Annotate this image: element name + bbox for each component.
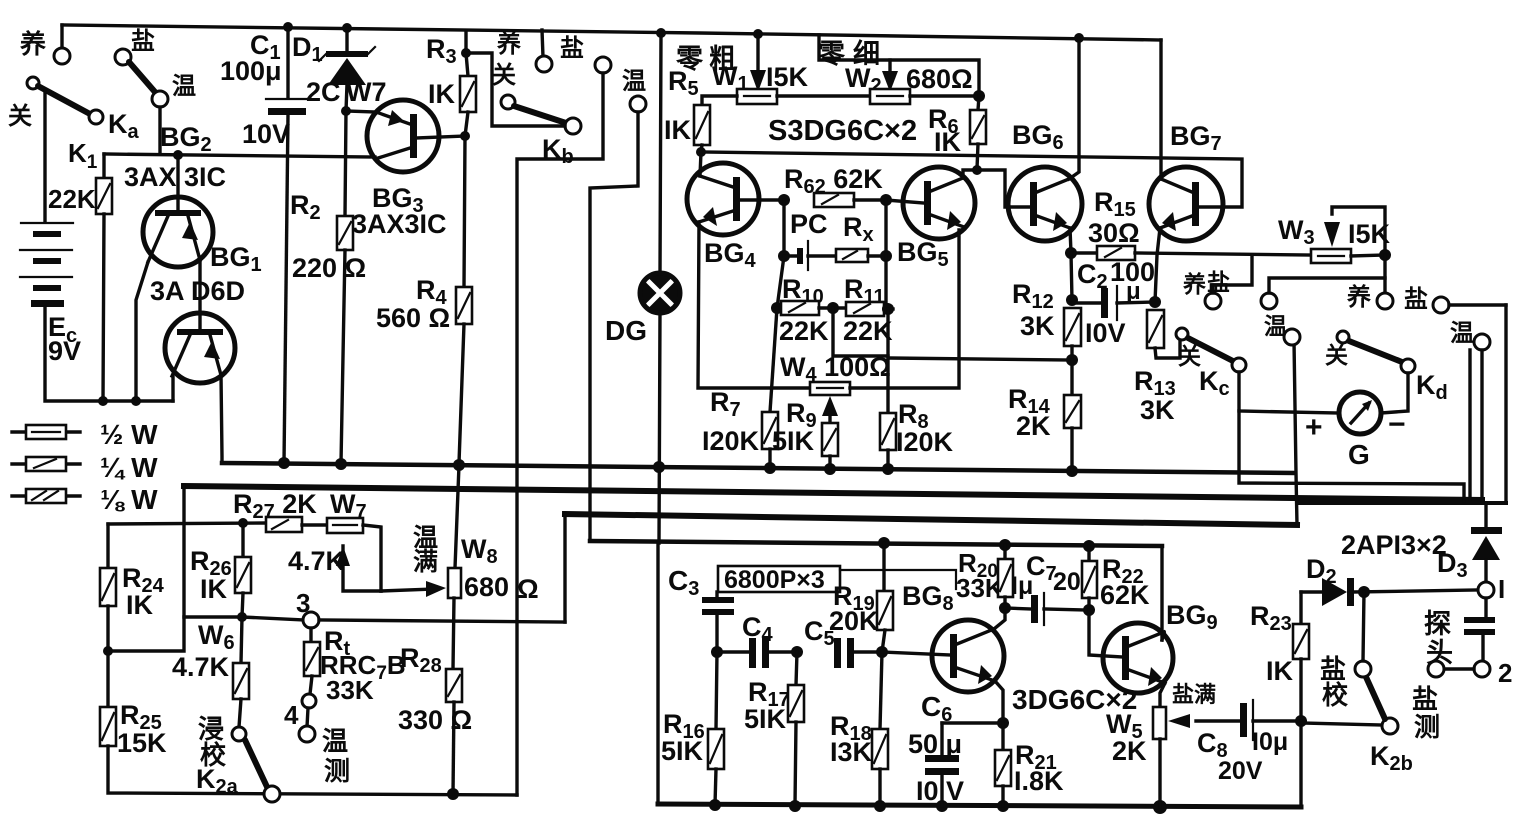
node 盐测 contact circle — [1428, 661, 1444, 677]
wire R27 row — [108, 523, 266, 524]
svg-text:满: 满 — [413, 548, 438, 576]
wire 2 to test contact — [1444, 667, 1474, 670]
svg-text:22K: 22K — [843, 316, 893, 346]
wire BG7 emitter down — [1155, 228, 1160, 302]
svg-text:IK: IK — [428, 79, 456, 109]
resistor R9 — [822, 423, 838, 456]
resistor R12 — [1064, 308, 1081, 346]
wire W1 left to R5 — [702, 96, 737, 105]
wire R3 to Kb pivot — [466, 53, 565, 126]
node 温Kd circle — [1474, 334, 1490, 350]
svg-text:I.8K: I.8K — [1014, 766, 1064, 796]
transistor BG8 — [932, 620, 1004, 692]
switch lever Kb — [514, 106, 566, 123]
node C3/C4/R16 — [711, 646, 723, 658]
svg-text:盐: 盐 — [1404, 286, 1428, 313]
label box 6800P×3 — [718, 566, 840, 592]
wire BG4 base column — [782, 200, 785, 256]
capacitor C4 — [717, 650, 749, 653]
node upper pivot circle — [152, 91, 168, 107]
node W3 right — [1379, 249, 1391, 261]
potentiometer W7 — [327, 518, 363, 533]
svg-text:4.7K: 4.7K — [172, 652, 230, 682]
svg-text:温: 温 — [172, 73, 196, 100]
svg-text:I5K: I5K — [766, 62, 809, 92]
node 盐Kd circle — [1433, 297, 1449, 313]
wire cross link to R12 column — [888, 358, 1072, 360]
node BG3 base / R4 top — [460, 131, 470, 141]
thermistor Rt — [309, 628, 312, 642]
resistor R13 — [1147, 310, 1164, 348]
svg-text:养: 养 — [496, 30, 521, 58]
svg-text:W7: W7 — [346, 77, 387, 107]
svg-text:I0V: I0V — [1085, 318, 1126, 348]
resistor R26 — [241, 523, 244, 557]
resistor 22K body — [102, 154, 105, 178]
node W6 top — [237, 612, 247, 622]
bus B — [184, 486, 1482, 500]
legend resistor 1/2W — [12, 430, 80, 433]
wire BG9 base link — [1089, 610, 1122, 657]
svg-text:50 μ: 50 μ — [908, 729, 962, 759]
wire D2 left lead — [1301, 590, 1322, 593]
svg-text:I0 V: I0 V — [916, 776, 964, 806]
wire K2b contact riser — [1363, 592, 1364, 661]
wire junction to bottom rail — [1299, 721, 1302, 807]
node 养Kc circle — [1205, 293, 1221, 309]
wire BG7 collector riser — [1159, 40, 1162, 179]
switch lever Kd — [1349, 341, 1402, 362]
node C1 top — [283, 22, 293, 32]
svg-text:3K: 3K — [1020, 311, 1055, 341]
node BG4 base — [778, 194, 790, 206]
wire 盐Kd to right drop — [1449, 303, 1506, 306]
switch lever Kc — [1188, 338, 1233, 361]
svg-text:IK: IK — [664, 115, 692, 145]
resistor R5 — [694, 105, 710, 145]
node D1/BG3 — [341, 106, 351, 116]
legend resistor 1/4W — [12, 462, 80, 465]
svg-text:5IK: 5IK — [744, 704, 787, 734]
wire BG6 emitter to R15 node — [1070, 228, 1071, 253]
capacitor C1 — [286, 27, 289, 97]
svg-text:测: 测 — [324, 756, 350, 786]
node bottom rail dots — [709, 799, 721, 811]
wire BG9 collector to rail — [1162, 632, 1164, 640]
svg-text:15K: 15K — [117, 728, 167, 758]
wire BG5 base lead — [886, 200, 924, 203]
svg-text:2API3×2: 2API3×2 — [1341, 530, 1447, 560]
wire BG5 base column — [884, 200, 887, 308]
wire 盐Kc riser — [1269, 278, 1385, 293]
svg-text:探: 探 — [1424, 609, 1451, 639]
node 盐Kc circle — [1261, 293, 1277, 309]
potentiometer W2 wiper — [888, 60, 891, 74]
wire W4 right to BG5 emitter column — [850, 230, 959, 388]
resistor R28 — [446, 669, 462, 702]
node 关 contact circle — [27, 77, 39, 89]
svg-text:2C: 2C — [306, 77, 341, 107]
node R20 bottom / C7 left — [999, 602, 1011, 614]
svg-text:I3K: I3K — [830, 737, 873, 767]
node R5 bottom — [696, 147, 706, 157]
wire BG9 emitter to W5 — [1160, 683, 1165, 707]
wire W1 right to W2 left — [777, 94, 870, 97]
node R15 left — [1065, 247, 1077, 259]
svg-text:S3DG6C×2: S3DG6C×2 — [768, 115, 917, 147]
resistor R10 — [781, 301, 819, 315]
node 1 terminal — [1478, 582, 1494, 598]
wire W2 right to node — [910, 94, 979, 97]
svg-text:680Ω: 680Ω — [906, 64, 973, 94]
resistor R6 — [978, 96, 979, 110]
wire 温Kd drop to bus B — [1480, 350, 1483, 500]
wire battery negative rail — [45, 307, 173, 401]
svg-text:盐: 盐 — [1207, 269, 1230, 295]
transistor BG2 — [143, 197, 213, 267]
wire C6 link — [942, 721, 1003, 724]
node C4/C5/R17 — [791, 646, 803, 658]
resistor R20 — [1003, 545, 1006, 559]
node K2b contact circle — [1355, 661, 1371, 677]
node R12/R14 — [1066, 354, 1078, 366]
node W2/R6 — [973, 90, 985, 102]
node 养 contact circle — [54, 48, 70, 64]
node R22k bottom — [98, 396, 108, 406]
lamp DG — [640, 273, 680, 313]
node Kb pivot — [565, 118, 581, 134]
wire BG4 base lead — [740, 198, 784, 201]
svg-text:关: 关 — [492, 62, 516, 89]
capacitor C3 — [702, 597, 734, 603]
wire BG1 collector riser — [171, 377, 174, 401]
svg-text:20K: 20K — [829, 606, 879, 636]
svg-text:I0μ: I0μ — [1252, 728, 1288, 756]
node rail dots — [878, 537, 890, 549]
wire bus C left drop — [563, 514, 566, 622]
svg-text:关: 关 — [1178, 343, 1201, 369]
svg-text:3K: 3K — [1140, 395, 1175, 425]
svg-text:盐: 盐 — [560, 35, 584, 62]
node R6 bottom — [972, 165, 982, 175]
node 关Kd circle — [1337, 331, 1349, 343]
svg-text:6800P×3: 6800P×3 — [724, 566, 825, 594]
resistor R19 — [882, 543, 885, 591]
svg-text:温: 温 — [1450, 320, 1474, 347]
transistor BG1 — [165, 313, 235, 383]
wire BG4 collector to R5 node — [700, 152, 701, 176]
bus C — [565, 514, 1297, 525]
resistor R18 — [880, 652, 882, 729]
bus A — [222, 463, 1294, 473]
wire BG2 collector down — [136, 262, 148, 401]
wire 养Kc to R15/W3 line — [1213, 255, 1252, 293]
node 养Kd circle — [1377, 293, 1393, 309]
svg-text:5IK: 5IK — [772, 426, 815, 456]
wire W7 right drop — [363, 525, 381, 591]
wire 养Kb stub — [542, 30, 543, 57]
svg-text:PC: PC — [790, 209, 828, 239]
wire W5 wiper arrow from C8 — [1196, 719, 1240, 722]
switch lever K2a — [245, 740, 268, 789]
resistor R21 — [1001, 723, 1004, 750]
resistor R3 — [466, 53, 468, 76]
svg-text:温: 温 — [322, 726, 348, 756]
node C5/R18/R19/BG8 base — [876, 646, 888, 658]
node 温Kb circle — [630, 96, 646, 112]
node Rx right — [880, 250, 892, 262]
svg-text:IK: IK — [126, 590, 154, 620]
svg-text:IK: IK — [200, 574, 228, 604]
svg-text:½ W: ½ W — [100, 419, 158, 450]
capacitor C6 electrolytic — [925, 755, 959, 762]
svg-text:I: I — [1498, 574, 1505, 604]
svg-text:G: G — [1348, 439, 1370, 470]
node R28 bottom — [447, 788, 459, 800]
node K2a pivot — [264, 786, 280, 802]
svg-text:盐: 盐 — [131, 28, 155, 55]
photocell PC element — [784, 254, 799, 257]
node BG2 collector bottom — [131, 396, 141, 406]
potentiometer W3 — [1311, 249, 1351, 263]
svg-text:养: 养 — [1346, 283, 1371, 311]
wire block rail right drop to BG9 — [1160, 546, 1163, 640]
resistor R2 — [345, 111, 346, 216]
node R26 top — [238, 518, 248, 528]
resistor R62 — [814, 193, 854, 207]
resistor R11 — [846, 302, 884, 316]
svg-text:校: 校 — [1322, 680, 1349, 710]
wire Kc pivot to G — [1239, 372, 1339, 413]
wire BG5 collector step to BG6 base — [963, 170, 1030, 207]
resistor R8 — [880, 413, 896, 450]
wire block left edge — [656, 543, 659, 804]
svg-text:22K: 22K — [48, 184, 96, 214]
node 温Kc circle — [1284, 329, 1300, 345]
node Kd pivot — [1401, 359, 1415, 373]
node 2 terminal — [1474, 661, 1490, 677]
capacitor C5 — [834, 638, 841, 668]
node 关Kb circle — [501, 95, 515, 109]
capacitor C8 — [1240, 703, 1247, 737]
switch lever Ka — [38, 86, 90, 114]
meter G — [1339, 392, 1381, 434]
svg-text:4.7K: 4.7K — [288, 546, 346, 576]
potentiometer W8 — [455, 465, 459, 568]
svg-text:560 Ω: 560 Ω — [376, 303, 450, 333]
wire label box lead — [840, 570, 956, 589]
capacitor probe — [1484, 598, 1487, 617]
capacitor C2 — [1072, 301, 1101, 304]
svg-text:62K: 62K — [1100, 580, 1150, 610]
potentiometer W2 — [870, 89, 910, 104]
svg-text:33K: 33K — [326, 675, 374, 705]
diode D3 zener — [1484, 503, 1487, 530]
wire battery top lead — [43, 90, 46, 221]
wire D1 node to BG3 — [346, 111, 375, 112]
node R10/R11 mid — [827, 302, 839, 314]
svg-text:22K: 22K — [779, 316, 829, 346]
node R22 bottom / BG9 base — [1083, 604, 1095, 616]
wire W4 wiper from R9 — [828, 408, 831, 423]
bus C2 right segment to D3 top — [1297, 501, 1506, 505]
potentiometer W5 — [1153, 707, 1166, 739]
transistor BG5 — [903, 167, 975, 239]
svg-text:关: 关 — [8, 103, 32, 130]
transistor BG4 — [687, 163, 759, 235]
wire feedback line to BG7 base — [701, 152, 1242, 207]
wire BG1 emitter to bus A — [221, 375, 222, 463]
svg-text:9V: 9V — [48, 336, 81, 366]
svg-text:10V: 10V — [242, 119, 290, 149]
node 盐Kb circle — [595, 57, 611, 73]
wire R12 column top — [1071, 253, 1072, 300]
svg-text:2: 2 — [1498, 658, 1512, 688]
node BG2 base — [173, 150, 183, 160]
node K2b pivot — [1382, 718, 1398, 734]
svg-text:220 Ω: 220 Ω — [292, 253, 366, 283]
svg-text:养: 养 — [19, 29, 46, 59]
svg-text:330 Ω: 330 Ω — [398, 705, 472, 735]
wire left column to R10 — [777, 256, 784, 308]
resistor R4 — [464, 136, 465, 287]
capacitor C7 — [1005, 608, 1031, 609]
transistor BG9 — [1103, 623, 1173, 693]
battery Ec plates — [21, 222, 73, 224]
svg-text:I20K: I20K — [702, 426, 760, 456]
node R13 top — [1149, 296, 1161, 308]
switch lever K2b — [1366, 677, 1385, 719]
svg-text:680: 680 — [464, 572, 509, 602]
potentiometer W1 wiper feed — [756, 34, 759, 72]
wire BG8 collector to C7 node — [994, 608, 1005, 629]
svg-text:Ω: Ω — [517, 574, 539, 604]
node BG6 collector feed — [1074, 33, 1084, 43]
wire BG2 emitter to BG1 base — [198, 260, 201, 331]
wire BG8 base lead — [882, 652, 950, 655]
wire W7 wiper — [343, 546, 381, 591]
wire mid node L to right column — [833, 308, 888, 356]
wire base rail K1 — [104, 154, 375, 157]
wire G return to bus — [1239, 411, 1464, 501]
wire upper pivot down to base rail — [158, 107, 161, 153]
wire W3 node to Kd rail — [1383, 255, 1386, 293]
resistor R16 — [716, 652, 717, 729]
svg-text:2K: 2K — [1112, 736, 1147, 766]
resistor R25 — [100, 707, 116, 746]
wire 3-row to right — [319, 620, 565, 622]
svg-text:养: 养 — [1182, 271, 1206, 297]
svg-text:盐满: 盐满 — [1172, 682, 1216, 707]
node emitter junction — [997, 717, 1009, 729]
svg-text:20V: 20V — [1218, 757, 1263, 785]
switch lever Ka-upper — [129, 62, 155, 92]
svg-text:¼ W: ¼ W — [100, 452, 158, 483]
legend resistor 1/8W — [12, 494, 80, 497]
wire right column down — [886, 309, 889, 413]
svg-text:温: 温 — [622, 68, 646, 95]
node R10 left — [771, 302, 783, 314]
wire top supply rail — [62, 25, 1161, 40]
node PC left — [778, 250, 790, 262]
transistor BG7 — [1149, 167, 1223, 241]
resistor Rx — [836, 249, 868, 262]
wire BG3 base lead — [417, 136, 465, 138]
node R11 right — [882, 303, 894, 315]
transistor BG6 — [1008, 167, 1082, 241]
node BG5 base — [880, 194, 892, 206]
node bus A dots — [278, 457, 290, 469]
wire 温Kb down to bus rail D — [590, 112, 638, 541]
svg-text:测: 测 — [1414, 712, 1440, 742]
wire Kd pivot to G right — [1381, 373, 1408, 413]
resistor R15 — [1071, 251, 1097, 254]
node R12 top — [1066, 294, 1078, 306]
wire 养 contact stub — [60, 25, 63, 48]
wire DG column — [660, 33, 661, 274]
wire bus B left drop — [108, 486, 184, 651]
wire node row to 3 terminal — [184, 617, 304, 620]
resistor R24 — [106, 524, 109, 568]
node DG top — [656, 28, 666, 38]
node 养Kb circle — [536, 56, 552, 72]
transistor BG3 — [367, 100, 439, 172]
svg-text:3AX3IC: 3AX3IC — [352, 209, 447, 239]
node D2 right / K2b branch — [1358, 586, 1370, 598]
wire BG4 emitter column — [698, 222, 810, 388]
svg-text:IK: IK — [1266, 656, 1294, 686]
svg-text:−: − — [1388, 408, 1406, 441]
node Kc pivot — [1232, 358, 1246, 372]
potentiometer W3 wiper tie — [1332, 207, 1385, 250]
bus rail bottom block — [590, 541, 1162, 546]
svg-text:5IK: 5IK — [661, 736, 704, 766]
svg-text:Iμ: Iμ — [1011, 572, 1033, 600]
svg-text:2K: 2K — [1016, 411, 1051, 441]
wire block bottom rail — [658, 804, 1301, 807]
svg-text:DG: DG — [605, 315, 647, 346]
resistor R23 — [1299, 592, 1302, 624]
node W6 bottom circle — [232, 727, 246, 741]
svg-text:IK: IK — [934, 127, 962, 157]
wire R3 top — [464, 31, 467, 53]
node R24 bottom — [103, 646, 113, 656]
svg-text:盐: 盐 — [1412, 684, 1438, 714]
node D1 top — [342, 23, 352, 33]
svg-text:⅛ W: ⅛ W — [100, 484, 158, 515]
resistor R17 — [796, 652, 797, 685]
node 关Kc circle — [1176, 328, 1188, 340]
resistor R27 — [266, 517, 302, 532]
potentiometer W4 — [810, 382, 850, 395]
potentiometer W1 — [737, 89, 777, 104]
resistor R14 — [1070, 360, 1073, 395]
wire BG6 collector riser — [1069, 38, 1079, 179]
wire wiper link arrow into W8 — [381, 589, 434, 591]
node Ka pivot circle — [89, 110, 103, 124]
node R23/C8 junction — [1295, 715, 1307, 727]
diode D2 — [1322, 578, 1347, 606]
svg-text:关: 关 — [1325, 342, 1348, 368]
svg-text:+: + — [1305, 411, 1323, 444]
wire bus B right riser to Kd — [1468, 350, 1471, 500]
node W1 feed — [753, 29, 763, 39]
wire W2 feed — [819, 35, 979, 92]
svg-text:I20K: I20K — [896, 427, 954, 457]
svg-text:3A D6D: 3A D6D — [150, 276, 245, 306]
wire 盐Kb down-left-down — [517, 73, 603, 795]
svg-text:4: 4 — [284, 700, 299, 730]
